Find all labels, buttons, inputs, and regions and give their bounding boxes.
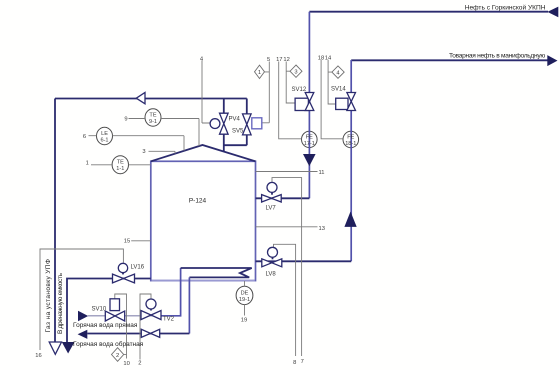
arrow filled down drain line bbox=[62, 342, 75, 354]
instrument TE 9-1 circle bbox=[145, 109, 161, 126]
signal line 14 to SV14 square bbox=[328, 60, 336, 104]
svg-text:15: 15 bbox=[124, 238, 130, 244]
wire valve outlet connector y=145.2 bbox=[224, 144, 247, 146]
signal line 4 to PV4 actuator bbox=[202, 61, 210, 124]
svg-text:P-124: P-124 bbox=[189, 197, 207, 204]
signal line 12 to SV12 square bbox=[286, 62, 295, 104]
valve SV12 bowtie bbox=[305, 93, 314, 102]
valve SV14 square box bbox=[336, 98, 348, 109]
svg-text:SV10: SV10 bbox=[92, 307, 107, 313]
signal line 16 to LV16 bbox=[40, 249, 123, 350]
signal stubs DE 19-1 bbox=[244, 281, 246, 316]
signal line 15 bbox=[131, 240, 151, 242]
valve SV12 square box bbox=[295, 98, 308, 110]
arrow oil inlet (points left) bbox=[547, 7, 558, 18]
svg-text:3: 3 bbox=[142, 149, 145, 155]
svg-text:6-1: 6-1 bbox=[100, 137, 108, 143]
diamond 4 bbox=[332, 66, 344, 78]
svg-text:18: 18 bbox=[318, 55, 324, 61]
svg-text:SV5: SV5 bbox=[232, 129, 244, 135]
signal line TV2 to 2 bbox=[140, 294, 151, 360]
valve PV4 square box bbox=[252, 118, 262, 129]
signal line 17 to FE 17-1 bbox=[279, 62, 302, 139]
svg-text:SV14: SV14 bbox=[331, 87, 346, 93]
tank P-124 body bbox=[151, 161, 256, 280]
signal line 11 bbox=[256, 171, 318, 173]
svg-text:19: 19 bbox=[241, 318, 247, 324]
arrow down on SV12 branch bbox=[303, 154, 316, 166]
tank bottom lighter line bbox=[152, 280, 255, 282]
svg-text:3: 3 bbox=[294, 70, 297, 76]
wire vertical SV12 branch x=309.4 bbox=[308, 12, 310, 199]
svg-text:TE: TE bbox=[149, 112, 156, 118]
instrument FE 18-1 circle bbox=[343, 131, 359, 147]
arrow up on SV14 branch bbox=[344, 212, 356, 227]
svg-text:10: 10 bbox=[123, 361, 129, 367]
svg-text:17-1: 17-1 bbox=[304, 141, 315, 147]
valve LV16 actuator bbox=[118, 263, 127, 272]
svg-text:LV16: LV16 bbox=[131, 265, 145, 271]
wire drain line from LV16 bbox=[67, 279, 151, 343]
wire return riser bbox=[188, 277, 190, 333]
svg-text:5: 5 bbox=[267, 57, 270, 63]
svg-text:9-1: 9-1 bbox=[149, 119, 157, 125]
wire hot water return line bbox=[87, 333, 189, 335]
heating coil top pass bbox=[181, 268, 252, 277]
svg-text:TE: TE bbox=[117, 160, 124, 166]
svg-text:1: 1 bbox=[258, 70, 261, 76]
svg-text:4: 4 bbox=[200, 56, 204, 62]
valve LV7 bowtie bbox=[262, 195, 272, 202]
diamond 1 bbox=[255, 65, 265, 78]
valve SV10 bowtie bbox=[105, 311, 115, 321]
wire LV7 outlet line y=198.3 bbox=[256, 197, 310, 199]
wire LV8 outlet line y=261.3 bbox=[256, 260, 352, 262]
wire oil inlet line y=11.7 bbox=[309, 11, 548, 13]
wire gas line down x=55 bbox=[54, 99, 56, 343]
svg-text:13: 13 bbox=[319, 226, 325, 232]
tank P-124 roof bbox=[151, 145, 256, 161]
valve SV10 square box bbox=[110, 299, 120, 311]
wire gas header y=98.5 bbox=[55, 98, 247, 100]
arrow hot water supply (points right) bbox=[78, 311, 88, 321]
svg-text:1: 1 bbox=[86, 161, 89, 167]
svg-text:8: 8 bbox=[293, 360, 296, 366]
svg-text:11: 11 bbox=[319, 170, 325, 176]
svg-text:LV7: LV7 bbox=[266, 206, 277, 212]
arrow oil outlet (points right) bbox=[547, 55, 557, 66]
wire vertical SV14 branch x=351.2 bbox=[350, 60, 352, 261]
svg-text:SV12: SV12 bbox=[292, 87, 307, 93]
instrument TE 1-1 circle bbox=[112, 156, 128, 174]
svg-text:DE: DE bbox=[241, 290, 249, 296]
svg-text:19-1: 19-1 bbox=[239, 297, 250, 303]
svg-text:18-1: 18-1 bbox=[345, 141, 356, 147]
valve LV8 actuator bbox=[268, 247, 278, 257]
signal lines TE 9-1 bbox=[129, 119, 200, 147]
svg-text:14: 14 bbox=[325, 55, 332, 61]
valve LV7 actuator bbox=[267, 182, 277, 192]
svg-text:Нефть с Горкинской УКПН: Нефть с Горкинской УКПН bbox=[465, 4, 546, 12]
svg-text:LV8: LV8 bbox=[266, 272, 277, 278]
svg-text:LE: LE bbox=[101, 131, 108, 137]
instrument FE 17-1 circle bbox=[302, 131, 318, 147]
svg-text:9: 9 bbox=[124, 116, 127, 122]
svg-text:1-1: 1-1 bbox=[116, 166, 124, 172]
signal lines TE 1-1 bbox=[91, 164, 151, 166]
valve TV2 bowtie bbox=[141, 311, 151, 320]
wire oil outlet line y=60 bbox=[351, 59, 548, 61]
instrument DE 19-1 circle bbox=[236, 286, 253, 304]
valve PV4 actuator circle bbox=[210, 119, 220, 129]
svg-text:В дренажную емкость: В дренажную емкость bbox=[57, 272, 64, 334]
valve SV14 bowtie bbox=[347, 93, 356, 102]
svg-text:7: 7 bbox=[301, 359, 304, 365]
svg-text:Горячая вода обратная: Горячая вода обратная bbox=[73, 340, 144, 348]
arrow hollow left on gas header bbox=[136, 93, 145, 104]
svg-text:Товарная нефть в манифольдную: Товарная нефть в манифольдную bbox=[449, 53, 545, 60]
arrow hot water return (points left) bbox=[78, 330, 88, 339]
signal line 5 to PV4/SV5 square bbox=[262, 62, 269, 123]
svg-text:TV2: TV2 bbox=[163, 317, 175, 323]
valve LV8 bowtie bbox=[262, 259, 272, 267]
svg-text:FE: FE bbox=[306, 134, 313, 140]
wire PV4 riser bbox=[223, 99, 225, 152]
instrument LE 6-1 circle bbox=[97, 127, 113, 144]
valve LV16 bowtie bbox=[113, 274, 124, 283]
svg-text:2: 2 bbox=[116, 353, 119, 359]
valve PV4 bowtie bbox=[220, 113, 229, 124]
valve TV2 actuator bbox=[146, 299, 156, 309]
svg-text:Газ на установку УПФ: Газ на установку УПФ bbox=[45, 259, 52, 333]
arrow hollow down gas line bbox=[49, 342, 61, 354]
signal line 3 to roof bbox=[149, 151, 176, 153]
signal line 13 bbox=[256, 226, 318, 228]
svg-text:Горячая вода прямая: Горячая вода прямая bbox=[73, 322, 138, 329]
signal line SV10 to 10 bbox=[115, 294, 127, 359]
svg-text:FE: FE bbox=[347, 134, 354, 140]
diamond 2 bbox=[112, 348, 124, 362]
svg-text:17: 17 bbox=[276, 57, 282, 63]
signal lines LE 6-1 bbox=[89, 136, 185, 151]
svg-text:PV4: PV4 bbox=[229, 117, 241, 123]
svg-text:2: 2 bbox=[138, 360, 141, 366]
wire SV5 riser bbox=[246, 99, 248, 146]
wire hot water supply line bbox=[88, 315, 161, 317]
signal line LV8 to 8 bbox=[274, 244, 296, 356]
svg-text:16: 16 bbox=[35, 353, 41, 359]
wire hot water supply to riser bbox=[161, 268, 181, 316]
valve return bowtie bbox=[141, 329, 150, 337]
valve SV5 bowtie bbox=[243, 114, 252, 125]
svg-text:12: 12 bbox=[283, 57, 289, 63]
signal line 18 to FE 18-1 bbox=[321, 60, 343, 139]
signal line LV7 to 7 bbox=[272, 178, 302, 356]
diamond 3 bbox=[290, 65, 302, 77]
svg-text:6: 6 bbox=[83, 134, 86, 140]
